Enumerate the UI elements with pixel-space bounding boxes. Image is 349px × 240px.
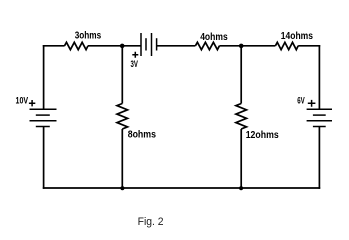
wire left vertical upper (43, 45, 45, 109)
wire top-left horizontal (43, 45, 65, 47)
resistor R5 12ohms (236, 104, 247, 130)
svg-text:8ohms: 8ohms (128, 130, 157, 141)
wire node B to R3 (241, 45, 275, 47)
wire bottom (43, 187, 320, 189)
wire R4 to bottom node C (121, 129, 123, 188)
battery V1 10V (30, 109, 57, 126)
wire right vertical upper (318, 45, 320, 109)
wire R5 to bottom node D (240, 129, 242, 188)
resistor R1 3ohms (65, 42, 89, 49)
node A junction (120, 44, 125, 49)
node D junction (239, 186, 243, 190)
wire node A down to R4 (121, 46, 123, 104)
svg-text:14ohms: 14ohms (281, 31, 314, 42)
svg-text:Fig. 2: Fig. 2 (138, 216, 164, 228)
resistor R4 8ohms (117, 104, 128, 130)
battery V2 3V (141, 33, 157, 56)
svg-text:3ohms: 3ohms (75, 31, 102, 42)
plus sign V4 (308, 100, 316, 107)
resistor R2 4ohms (195, 42, 219, 49)
svg-text:3V: 3V (131, 59, 138, 69)
resistor R3 14ohms (275, 42, 298, 49)
wire node B down to R5 (240, 46, 242, 104)
wire right vertical lower (318, 127, 320, 189)
svg-text:10V: 10V (16, 96, 29, 106)
svg-text:6V: 6V (297, 96, 305, 106)
plus sign V2 (132, 52, 138, 58)
wire node A to battery V2 (122, 45, 141, 47)
node B junction (239, 44, 244, 49)
node C junction (120, 186, 124, 190)
svg-text:4ohms: 4ohms (200, 32, 228, 43)
battery V4 6V (307, 109, 332, 126)
wire R3 to top-right corner (298, 45, 320, 47)
svg-text:12ohms: 12ohms (246, 130, 279, 141)
wire V2 to R2 (157, 45, 196, 47)
wire R2 to node B (219, 45, 241, 47)
plus sign V1 (29, 100, 35, 106)
wire left vertical lower (43, 127, 45, 189)
wire R1 to node A (88, 45, 122, 47)
